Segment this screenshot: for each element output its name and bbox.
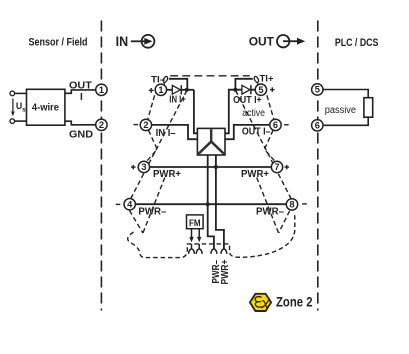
svg-text:5: 5 (258, 85, 263, 95)
svg-text:Zone 2: Zone 2 (276, 295, 313, 310)
svg-text:4-wire: 4-wire (32, 102, 59, 113)
svg-text:Sensor / Field: Sensor / Field (29, 37, 88, 49)
svg-text:PWR–: PWR– (256, 207, 284, 218)
svg-text:PWR+: PWR+ (153, 169, 181, 180)
svg-text:1: 1 (99, 85, 104, 95)
svg-text:2: 2 (143, 120, 148, 130)
svg-text:7: 7 (274, 162, 279, 172)
svg-text:active: active (242, 108, 265, 119)
svg-text:4: 4 (127, 199, 133, 209)
svg-text:passive: passive (325, 105, 357, 116)
svg-text:TI+: TI+ (260, 74, 274, 85)
svg-text:GND: GND (69, 129, 93, 141)
svg-text:1: 1 (158, 85, 163, 95)
svg-text:PWR+: PWR+ (241, 169, 269, 180)
svg-text:PWR–: PWR– (138, 207, 166, 218)
svg-text:6: 6 (273, 120, 278, 130)
svg-text:I: I (80, 92, 83, 103)
svg-text:3: 3 (141, 162, 146, 172)
svg-text:OUT: OUT (249, 34, 275, 48)
svg-text:2: 2 (99, 120, 104, 130)
svg-text:IN I+: IN I+ (169, 94, 186, 105)
svg-text:5: 5 (315, 85, 320, 95)
svg-text:PWR+: PWR+ (220, 259, 231, 284)
svg-text:TI–: TI– (151, 74, 165, 85)
svg-text:PLC / DCS: PLC / DCS (335, 37, 379, 49)
svg-text:FM: FM (189, 218, 201, 228)
svg-text:8: 8 (289, 200, 294, 210)
svg-text:6: 6 (315, 121, 320, 131)
svg-text:OUT I+: OUT I+ (233, 95, 262, 106)
svg-text:IN I–: IN I– (156, 128, 176, 139)
svg-text:OUT I–: OUT I– (242, 126, 271, 137)
svg-text:IN: IN (116, 34, 129, 49)
svg-text:s: s (22, 106, 26, 113)
svg-text:OUT: OUT (69, 80, 93, 91)
